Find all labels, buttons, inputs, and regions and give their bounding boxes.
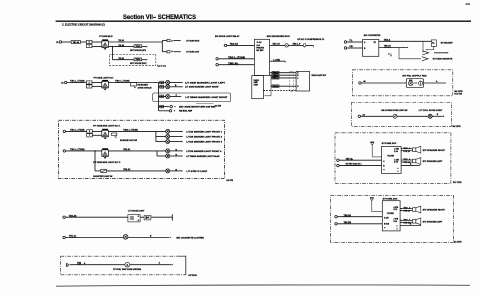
- connector pin 7: [87, 134, 93, 137]
- E/T panel box U6: [382, 201, 400, 231]
- svg-text:RLY 12TB: RLY 12TB: [453, 182, 462, 184]
- wire: [400, 221, 402, 223]
- wire: [400, 148, 403, 150]
- terminal A6: [358, 115, 360, 117]
- relay K4 P/T SIDE MKR LIGHT RLY 2: [102, 148, 109, 158]
- svg-text:MH 12TB: MH 12TB: [455, 91, 464, 93]
- terminal: [63, 130, 65, 132]
- cable bundle dashes: [290, 71, 294, 91]
- chevron arrow 1: [422, 51, 428, 55]
- svg-text:TB2 L A: TB2 L A: [403, 158, 410, 161]
- label TB8 FB: [344, 222, 352, 224]
- terminal: [216, 63, 218, 65]
- arrowhead: [146, 46, 147, 48]
- wire: [173, 40, 179, 42]
- wire: [400, 219, 402, 221]
- dashed box type B option: [110, 54, 156, 65]
- svg-text:7: 7: [89, 86, 90, 88]
- svg-text:L/TCB MARKER LIGHT FRONT 4: L/TCB MARKER LIGHT FRONT 4: [186, 150, 222, 153]
- svg-text:P/T SIDE MKR LIGHT RLY 1: P/T SIDE MKR LIGHT RLY 1: [93, 125, 121, 127]
- lamp cab marker: [166, 135, 170, 139]
- wire to alert box: [270, 72, 297, 74]
- terminal: [63, 216, 65, 218]
- wire: [400, 159, 403, 161]
- svg-text:TB2 L A: TB2 L A: [403, 147, 410, 150]
- svg-text:7: 7: [89, 46, 90, 48]
- end bar: [171, 214, 173, 220]
- relay K2 P/T SIDE LIGHT RLY: [102, 80, 109, 90]
- svg-text:C. ELECTRIC CIRCUIT DIAGRAM (C: C. ELECTRIC CIRCUIT DIAGRAM (C): [62, 23, 105, 27]
- wire: [162, 40, 167, 42]
- connector row 2: [160, 86, 164, 89]
- terminal: [169, 110, 171, 112]
- connector pin 7: [86, 44, 92, 47]
- svg-text:RM E/D ALERT BOX: RM E/D ALERT BOX: [312, 74, 327, 77]
- branch wire: [159, 106, 170, 108]
- label TB2 A5: [118, 44, 124, 47]
- wire: [65, 237, 123, 239]
- wire: [432, 115, 443, 117]
- svg-text:Type B only: Type B only: [157, 65, 167, 67]
- lamp L/T tool room light: [428, 114, 432, 118]
- wire: [81, 41, 87, 43]
- wire: [306, 44, 314, 46]
- svg-text:TB1 A6: TB1 A6: [73, 41, 79, 44]
- speaker SP2 left: [401, 158, 421, 165]
- wire: [92, 41, 102, 43]
- connector row 3: [160, 95, 164, 98]
- arrowhead: [182, 82, 183, 84]
- svg-text:SM BATTERY LIGHT SW: SM BATTERY LIGHT SW: [93, 175, 112, 178]
- wire: [339, 165, 381, 167]
- svg-text:2/T HORN LOW: 2/T HORN LOW: [186, 52, 199, 54]
- svg-text:L/T SIDE MARKER LIGHT RIGHT: L/T SIDE MARKER LIGHT RIGHT: [185, 86, 219, 89]
- label TB2 AL: [228, 62, 239, 65]
- wire: [173, 51, 179, 53]
- bus wire: [158, 83, 160, 111]
- wire: [170, 150, 182, 152]
- arrowhead: [445, 82, 446, 84]
- wire: [95, 170, 101, 172]
- svg-text:B 6CB: B 6CB: [384, 224, 390, 226]
- wire: [400, 150, 403, 152]
- svg-text:B 14: B 14: [394, 150, 398, 153]
- vertical stub from receiver box: [270, 76, 272, 96]
- label TB2 A6: [230, 43, 239, 46]
- label TB2 A2: [123, 168, 131, 171]
- svg-text:2: 2: [89, 131, 90, 133]
- wire: [400, 225, 420, 227]
- pin dots: [384, 227, 385, 228]
- svg-text:EA 12TB: EA 12TB: [454, 241, 462, 244]
- label TB1 L (TDM): [70, 81, 85, 83]
- terminal 20: [65, 81, 67, 83]
- wire: [142, 46, 147, 48]
- bottom rule: [56, 285, 470, 286]
- svg-text:6TB 14: 6TB 14: [403, 150, 410, 153]
- label CB: [349, 46, 353, 48]
- label 7L: [349, 40, 353, 42]
- connector row 4: [160, 105, 164, 108]
- svg-text:E/T SPEAKER LEFT: E/T SPEAKER LEFT: [423, 220, 443, 223]
- svg-text:E/T RADIO MONITOR: E/T RADIO MONITOR: [433, 58, 453, 61]
- wire: [67, 82, 86, 84]
- label TB7 FB7 DASH AT 1: [346, 163, 363, 166]
- svg-text:RLY 6TB: RLY 6TB: [455, 94, 463, 96]
- svg-text:E/T A/C H COMPRESSOR CL: E/T A/C H COMPRESSOR CL: [298, 38, 326, 41]
- terminal D: [224, 44, 226, 46]
- svg-text:E/T SPEAKER RIGHT: E/T SPEAKER RIGHT: [423, 149, 446, 152]
- thermal switch: [304, 44, 306, 48]
- svg-text:L/T ROOM LIGHT: L/T ROOM LIGHT: [128, 210, 145, 212]
- svg-text:6: 6: [161, 106, 162, 108]
- label TB2 L (TDM): [115, 81, 130, 83]
- dash-dot enclosure marker relays: [59, 120, 225, 178]
- junction: [112, 46, 113, 47]
- header rule: [56, 20, 471, 22]
- label TB8 A6: [384, 45, 392, 48]
- wire: [401, 164, 419, 166]
- terminal: [63, 236, 65, 238]
- svg-text:P/T SIDE LIGHT RLY: P/T SIDE LIGHT RLY: [94, 78, 115, 80]
- svg-text:LIGHTING CONTROLLER: LIGHTING CONTROLLER: [138, 87, 152, 89]
- wire: [92, 134, 101, 136]
- connector stub: [223, 44, 226, 46]
- lamp cab marker: [166, 154, 170, 158]
- label TB2 L (TDM): [123, 130, 138, 132]
- arrowhead: [180, 51, 181, 53]
- svg-text:E/D SIDE MKR/TURN SW RM: E/D SIDE MKR/TURN SW RM: [179, 107, 215, 109]
- arrowhead: [407, 47, 408, 49]
- connector pin 7: [86, 85, 92, 88]
- arrowhead: [146, 59, 147, 61]
- corner tick: [466, 3, 471, 4]
- dashed enclosure panel box 1: [335, 133, 451, 184]
- wire: [162, 51, 167, 53]
- connector TB2A: [272, 71, 279, 74]
- lamp cigarette lighter: [123, 235, 128, 240]
- switch RM horn left: [134, 45, 142, 48]
- switch RM horn right: [134, 58, 142, 61]
- wire to alert box: [270, 74, 297, 76]
- RM E/D alert box U2: [296, 71, 309, 91]
- arrowhead: [175, 106, 176, 108]
- svg-text:Section VII– SCHEMATICS: Section VII– SCHEMATICS: [123, 14, 196, 21]
- wire: [218, 58, 254, 60]
- svg-text:E/T PANEL BOX: E/T PANEL BOX: [382, 142, 397, 145]
- arrowhead: [172, 264, 173, 266]
- arrowhead: [182, 155, 183, 157]
- label TB2: [77, 262, 82, 264]
- wire: [339, 159, 381, 161]
- bus wire: [156, 151, 158, 156]
- wire: [92, 46, 102, 48]
- wire: [108, 82, 165, 84]
- svg-text:EA 3TB: EA 3TB: [227, 179, 234, 182]
- arrowhead: [447, 52, 448, 54]
- wire: [92, 85, 102, 87]
- wire: [400, 161, 403, 163]
- svg-text:L/TCB MARKER LIGHT FRONT 3: L/TCB MARKER LIGHT FRONT 3: [186, 141, 223, 144]
- terminal A6: [359, 82, 361, 84]
- svg-text:FILTER: FILTER: [387, 213, 394, 215]
- svg-text:L/TCB MARKER LIGHT FRONT 1: L/TCB MARKER LIGHT FRONT 1: [186, 130, 223, 133]
- wire: [288, 44, 303, 46]
- battery antenna BAT: [370, 197, 382, 211]
- room light fixture: [128, 215, 140, 222]
- wire: [361, 115, 394, 117]
- enclosure rounded box row 3: [153, 93, 231, 102]
- wire: [337, 216, 382, 218]
- arrowhead: [170, 237, 171, 239]
- end tick: [312, 45, 314, 47]
- wire: [94, 151, 96, 171]
- chevron arrow 2: [422, 57, 428, 61]
- wire: [170, 130, 182, 132]
- arrowhead: [419, 165, 420, 167]
- svg-text:RM E/DL REF: RM E/DL REF: [179, 111, 193, 113]
- wire: [400, 210, 402, 212]
- E/D converter box U4: [363, 40, 379, 57]
- wire: [170, 141, 182, 143]
- svg-text:B 14: B 14: [394, 220, 398, 223]
- fan unit M1: [406, 79, 423, 88]
- lamp cab marker: [166, 129, 170, 133]
- branch wire: [156, 136, 166, 138]
- svg-text:2: 2: [89, 42, 90, 44]
- svg-text:TB2 L A: TB2 L A: [403, 207, 410, 210]
- connector A low: [167, 51, 170, 53]
- lamp cab marker: [166, 149, 170, 153]
- end arrow: [284, 60, 285, 62]
- label TB2 A1: [123, 148, 131, 151]
- svg-text:OPTION: OPTION: [188, 275, 197, 277]
- wire: [424, 82, 445, 84]
- arrowhead: [182, 131, 183, 133]
- arrowhead: [443, 116, 444, 118]
- wire: [92, 130, 101, 132]
- wire: [108, 46, 134, 48]
- dashed shield wire: [263, 90, 296, 92]
- svg-text:6: 6: [161, 96, 162, 98]
- drop wire: [399, 48, 421, 59]
- svg-text:L/T REAR MARKER LIGHT RAAR: L/T REAR MARKER LIGHT RAAR: [186, 155, 220, 158]
- label TB1 L (TDM): [70, 149, 85, 151]
- label TB1 L (TDM): [70, 130, 85, 132]
- connector TB2A: [272, 74, 279, 77]
- dashed enclosure access room light: [351, 103, 451, 127]
- wire: [161, 41, 163, 43]
- svg-text:TB2 L A: TB2 L A: [403, 218, 410, 221]
- E/T panel box U5: [382, 146, 402, 173]
- connector A high: [167, 39, 170, 41]
- svg-text:L/TCB MARKER LIGHT FRONT 2: L/TCB MARKER LIGHT FRONT 2: [186, 135, 223, 138]
- terminal 20: [59, 41, 61, 43]
- terminal TB8 FA: [335, 216, 337, 218]
- label TB7 AL: [346, 157, 354, 160]
- lamp L/T step light: [166, 169, 170, 173]
- junction: [94, 150, 95, 151]
- solid corner reinforcement: [178, 256, 186, 275]
- svg-text:L/T REAR MARKER LIGHT RIGHT: L/T REAR MARKER LIGHT RIGHT: [185, 96, 228, 99]
- wire: [108, 150, 165, 152]
- svg-text:P/T HORN RELAY: P/T HORN RELAY: [99, 35, 113, 38]
- branch wire: [159, 96, 166, 98]
- terminal 7L: [344, 41, 346, 43]
- wire: [170, 136, 182, 138]
- svg-text:RM P/T HORN SW (RIGHT): RM P/T HORN SW (RIGHT): [130, 63, 147, 65]
- diode D1: [144, 215, 151, 220]
- lamp rear marker: [166, 95, 170, 99]
- svg-text:E/D RECEIVER BOX: E/D RECEIVER BOX: [267, 36, 291, 38]
- wire: [130, 264, 172, 266]
- branch wire: [157, 155, 166, 157]
- wire: [347, 47, 363, 49]
- arrowhead: [180, 40, 181, 42]
- connector TB2A: [272, 77, 279, 80]
- radio amp sub box U3: [252, 76, 264, 99]
- wire: [218, 64, 254, 66]
- dashed enclosure panel box 2: [331, 195, 454, 242]
- label TB1 A6: [69, 214, 77, 217]
- wire: [170, 86, 182, 88]
- label TB1 AL: [69, 235, 77, 238]
- arrowhead: [182, 86, 183, 88]
- wire: [128, 237, 169, 239]
- terminal: [63, 150, 65, 152]
- drop wire: [422, 41, 424, 53]
- connector pin 2: [87, 130, 93, 133]
- battery antenna BAT: [370, 142, 381, 157]
- wire: [379, 40, 432, 42]
- wire: [66, 130, 87, 132]
- fuse SM battery light sw: [101, 169, 107, 172]
- wire: [112, 47, 114, 60]
- svg-text:RM P/T HORN SW (LEFT): RM P/T HORN SW (LEFT): [130, 50, 146, 52]
- svg-text:E/T PNL SUPPLY FAN: E/T PNL SUPPLY FAN: [403, 74, 428, 77]
- wire: [161, 42, 163, 52]
- dash-dot enclosure option: [61, 256, 186, 275]
- wire: [151, 216, 172, 218]
- svg-text:A: A: [126, 263, 128, 267]
- lamp cab marker: [166, 140, 170, 144]
- wire: [170, 82, 182, 84]
- svg-text:D: D: [66, 262, 69, 267]
- svg-text:TB2A: TB2A: [135, 58, 141, 61]
- wire: [108, 41, 162, 43]
- svg-text:E/D CIGARETTE LIGHTER: E/D CIGARETTE LIGHTER: [176, 236, 204, 239]
- arrowhead: [182, 136, 183, 138]
- svg-text:E/T PANEL BOX: E/T PANEL BOX: [383, 198, 398, 201]
- label TB2 A: [384, 38, 391, 41]
- arrowhead: [174, 110, 175, 112]
- wire: [227, 44, 255, 46]
- branch wire: [156, 141, 166, 143]
- wire: [379, 47, 407, 49]
- svg-text:2/T HORN HIGH: 2/T HORN HIGH: [186, 41, 199, 43]
- svg-text:E/T SPEAKER RIGHT: E/T SPEAKER RIGHT: [423, 209, 446, 212]
- svg-text:7: 7: [89, 135, 90, 137]
- lamp side marker right: [166, 85, 170, 89]
- svg-text:TB2A: TB2A: [273, 85, 279, 88]
- wire: [270, 44, 285, 46]
- connector pin 2: [86, 40, 92, 43]
- arrowhead: [180, 96, 181, 98]
- speaker SP4 left: [401, 218, 421, 225]
- label TB8 FA: [344, 214, 352, 217]
- terminal TB7 FB: [337, 164, 339, 166]
- svg-text:E/T MAGNET: E/T MAGNET: [441, 42, 454, 45]
- svg-text:B 14: B 14: [394, 208, 398, 211]
- down stub: [390, 53, 392, 56]
- connector TB2A: [272, 85, 279, 88]
- svg-text:32 3TB: 32 3TB: [215, 105, 222, 107]
- wire: [434, 52, 447, 54]
- wire: [66, 150, 102, 152]
- inline connector circle: [285, 44, 288, 47]
- svg-text:FILTER: FILTER: [388, 156, 395, 158]
- relay K1 P/T HORN RELAY: [102, 39, 109, 49]
- arrowhead: [420, 225, 421, 227]
- bus wire: [155, 131, 157, 141]
- svg-text:L/T SIDE MARKER LIGHT LEFT: L/T SIDE MARKER LIGHT LEFT: [185, 81, 226, 84]
- arrowhead: [182, 141, 183, 143]
- terminal TB7 AL: [337, 159, 339, 161]
- wire: [62, 41, 72, 43]
- svg-text:TB2A: TB2A: [135, 45, 141, 48]
- svg-text:6: 6: [161, 87, 162, 89]
- connector pin 2: [86, 81, 92, 84]
- wire: [361, 82, 406, 84]
- branch wire: [159, 110, 170, 112]
- label TB2 A4: [118, 39, 124, 42]
- terminal CB: [344, 47, 346, 49]
- pin dots: [383, 169, 384, 170]
- svg-text:P/T FUEL TANK GATE S/UPRISE: P/T FUEL TANK GATE S/UPRISE: [113, 268, 142, 271]
- terminal TB8 FB: [335, 223, 337, 225]
- wire: [347, 41, 363, 43]
- wire: [140, 216, 144, 218]
- buzzer fuel tank gate: [125, 262, 130, 267]
- wire: [170, 96, 181, 98]
- terminal: [170, 105, 172, 107]
- wire to alert box: [271, 77, 296, 79]
- wire: [70, 264, 125, 266]
- svg-text:E/D CONVERTER: E/D CONVERTER: [364, 35, 381, 37]
- wire: [397, 115, 428, 117]
- svg-text:B 14: B 14: [394, 161, 398, 164]
- label TB2 L (TDM): [228, 57, 245, 59]
- wire: [170, 170, 182, 172]
- svg-text:TB2A: TB2A: [273, 77, 279, 80]
- svg-text:L/T STEP IF LIGHT: L/T STEP IF LIGHT: [186, 171, 208, 173]
- wire to alert box: [271, 85, 296, 87]
- svg-text:6TB 14: 6TB 14: [403, 210, 410, 213]
- wire: [270, 60, 285, 62]
- branch wire: [159, 86, 166, 88]
- arrowhead: [182, 150, 183, 152]
- speaker SP3 right: [401, 206, 421, 213]
- connector TB1 A6: [71, 41, 80, 44]
- svg-text:P/T SIDE MKR LIGHT RLY 2: P/T SIDE MKR LIGHT RLY 2: [93, 162, 121, 164]
- wire: [92, 82, 102, 84]
- wire: [170, 155, 182, 157]
- wire: [108, 130, 165, 132]
- hook from magnet box: [427, 46, 434, 49]
- svg-text:SM MODE LIGHT SW: SM MODE LIGHT SW: [120, 140, 137, 142]
- switch mode-T: [130, 83, 136, 89]
- svg-text:L/T TOOL ROOM LIGHT: L/T TOOL ROOM LIGHT: [419, 110, 443, 112]
